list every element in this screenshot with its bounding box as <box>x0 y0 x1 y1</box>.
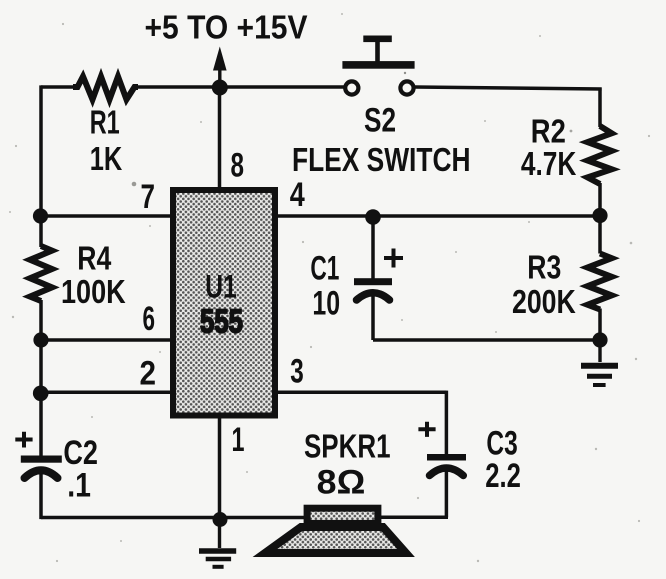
svg-text:8: 8 <box>231 146 245 184</box>
wire pin 2 to left rail <box>41 391 172 395</box>
svg-text:200K: 200K <box>512 283 576 320</box>
wire right vertical from top rail to R2 <box>598 88 602 128</box>
wire C3 branch to speaker <box>378 516 448 520</box>
pushbutton switch S2 <box>342 36 414 95</box>
wire pin 3 to C3 branch <box>275 391 446 395</box>
svg-text:U1: U1 <box>205 269 237 305</box>
wire pin 8 to power node <box>218 87 222 188</box>
svg-text:555: 555 <box>200 303 243 340</box>
wire C1 branch vertical above C1 <box>371 214 375 279</box>
svg-text:1: 1 <box>232 421 245 459</box>
svg-text:S2: S2 <box>364 102 396 140</box>
wire pin 4 to right rail <box>275 214 600 218</box>
wire left vertical from C2 to bottom rail <box>39 474 43 519</box>
svg-text:4: 4 <box>290 176 305 214</box>
power supply arrow <box>213 47 227 88</box>
svg-text:7: 7 <box>141 178 156 216</box>
IC U1 555 timer body <box>173 190 275 416</box>
wire right vertical from R2 to node at pin 4 rail <box>598 183 602 254</box>
svg-text:2.2: 2.2 <box>485 457 521 495</box>
wire right vertical from R3 to ground node <box>598 309 602 341</box>
svg-text:6: 6 <box>143 300 156 338</box>
wire C1 to R3 ground rail <box>373 338 600 342</box>
node R3 ground junction <box>592 332 607 347</box>
wire left vertical from top rail to R4 <box>39 85 43 247</box>
wire pin 1 to bottom rail <box>218 415 222 518</box>
wire C1 branch vertical below C1 <box>371 293 375 340</box>
wire top rail from S2 right contact to top-right corner <box>415 87 602 89</box>
node pin 7 junction on left rail <box>33 208 48 223</box>
svg-text:1K: 1K <box>90 140 123 177</box>
svg-text:.1: .1 <box>67 467 91 505</box>
svg-text:R1: R1 <box>90 104 120 141</box>
svg-text:3: 3 <box>290 353 304 391</box>
wire left vertical from R4 to C2 <box>39 300 43 456</box>
ground at pin 1 <box>199 519 236 567</box>
svg-text:FLEX SWITCH: FLEX SWITCH <box>292 141 471 178</box>
node C1 junction on pin 4 rail <box>365 209 381 225</box>
ground at R3 <box>581 340 618 385</box>
node pin 2 junction on left rail <box>33 386 49 402</box>
node power junction at pin 8 <box>212 80 228 96</box>
wire pin 6 to left rail <box>41 338 172 342</box>
wire pin 7 to left rail <box>41 214 172 218</box>
wire C3 branch vertical above C3 <box>445 391 449 454</box>
wire top rail from R1 to S2 left contact <box>134 85 344 89</box>
svg-text:8Ω: 8Ω <box>317 464 366 502</box>
wire top rail from left corner to R1 <box>41 85 77 89</box>
svg-text:R2: R2 <box>531 113 566 150</box>
wire bottom rail to speaker <box>41 516 306 520</box>
speaker SPKR1 <box>265 508 406 553</box>
wire C3 branch vertical below C3 <box>445 470 449 517</box>
svg-text:SPKR1: SPKR1 <box>304 428 391 465</box>
node pin 1 junction on bottom rail <box>213 512 228 527</box>
resistor R3 <box>588 254 612 310</box>
svg-text:R4: R4 <box>77 240 112 277</box>
svg-text:10: 10 <box>312 285 340 323</box>
resistor R2 <box>588 126 612 184</box>
node pin 6 junction on left rail <box>33 332 48 347</box>
svg-text:R3: R3 <box>527 249 561 286</box>
capacitor C1 <box>354 249 403 301</box>
svg-text:100K: 100K <box>61 273 126 310</box>
resistor R4 <box>30 246 52 301</box>
svg-text:+5 TO +15V: +5 TO +15V <box>145 8 308 45</box>
node R2-R3 junction on pin 4 rail <box>592 208 607 223</box>
resistor R1 <box>73 77 138 100</box>
capacitor C2 <box>15 432 62 478</box>
svg-text:2: 2 <box>140 355 157 393</box>
svg-text:C1: C1 <box>310 249 339 287</box>
svg-text:4.7K: 4.7K <box>521 145 577 182</box>
capacitor C3 <box>418 422 466 476</box>
